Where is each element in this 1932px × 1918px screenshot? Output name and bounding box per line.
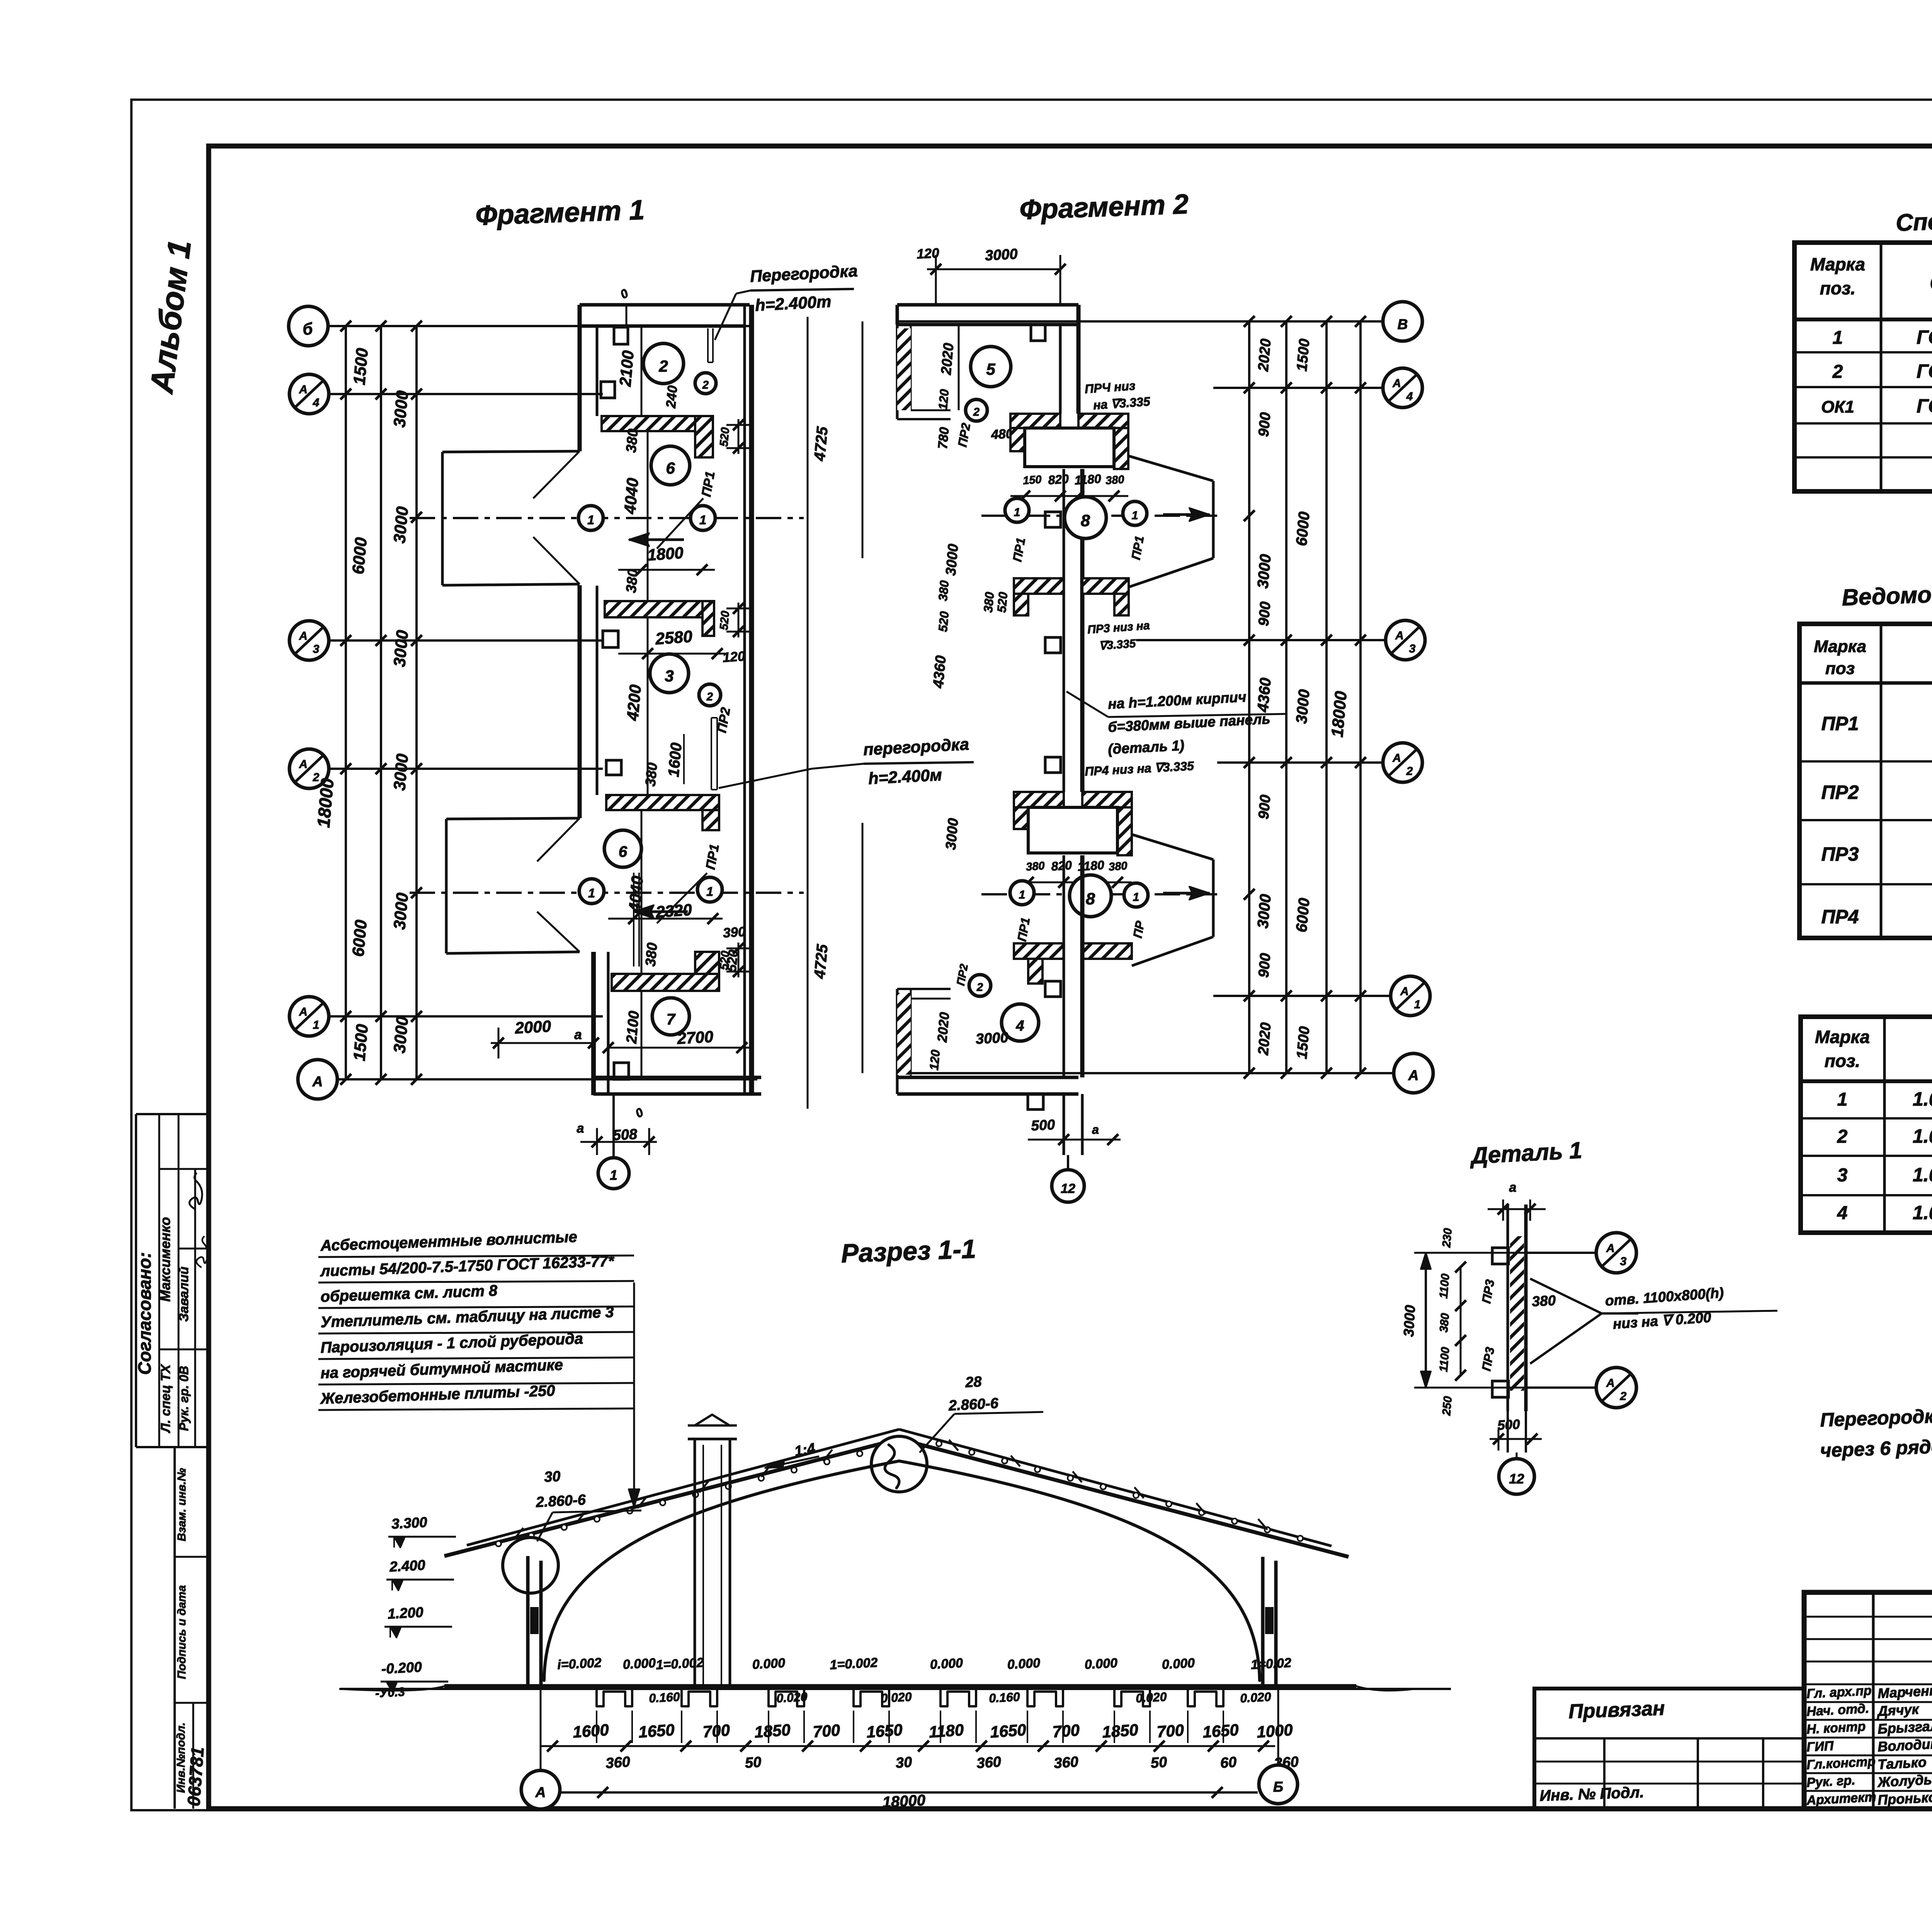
svg-text:780: 780	[935, 426, 952, 450]
svg-text:3000: 3000	[1401, 1305, 1418, 1337]
svg-text:0.000: 0.000	[930, 1656, 963, 1672]
svg-text:150: 150	[1022, 473, 1042, 487]
svg-text:2700: 2700	[676, 1028, 714, 1048]
svg-text:ПР: ПР	[1131, 919, 1147, 939]
svg-text:0.020: 0.020	[776, 1690, 808, 1705]
svg-text:0.000: 0.000	[752, 1656, 786, 1672]
svg-text:0.160: 0.160	[648, 1690, 680, 1705]
svg-text:3000: 3000	[975, 1030, 1009, 1047]
frag2 pilaster bottom	[1045, 981, 1061, 997]
svg-text:Рук. гр. 0В: Рук. гр. 0В	[177, 1366, 191, 1431]
svg-text:1: 1	[1414, 998, 1421, 1011]
svg-text:120: 120	[722, 649, 746, 665]
svg-text:700: 700	[702, 1721, 730, 1741]
svg-text:520: 520	[718, 610, 732, 630]
roof left slope	[444, 1439, 899, 1556]
feed trough channels	[597, 1686, 632, 1706]
title block left horizontal rows	[1804, 1616, 1932, 1618]
dimension ticks fragment1 left	[340, 321, 351, 331]
svg-text:50: 50	[1150, 1754, 1168, 1772]
svg-text:4040: 4040	[625, 875, 646, 913]
svg-text:390: 390	[723, 924, 747, 941]
svg-text:Завалий: Завалий	[177, 1266, 191, 1322]
svg-text:1: 1	[1132, 509, 1138, 522]
svg-text:i=0.002: i=0.002	[557, 1655, 602, 1672]
svg-text:1: 1	[1133, 891, 1139, 904]
svg-text:063781: 063781	[184, 1746, 208, 1807]
frag2 axis circle А/4	[1383, 368, 1422, 408]
svg-text:А: А	[312, 1074, 323, 1089]
table1 verticals	[1880, 243, 1883, 491]
detail leader triangle	[1530, 1279, 1602, 1313]
svg-text:Дячук: Дячук	[1876, 1701, 1920, 1719]
frag2 axis circle А/3	[1386, 620, 1425, 660]
hatched cross wall 2	[605, 601, 714, 617]
detail wall double line	[1507, 1204, 1509, 1411]
svg-text:a: a	[1509, 1180, 1517, 1195]
svg-text:380: 380	[981, 591, 997, 613]
frag2 trapezoid opening lower	[1132, 834, 1213, 860]
svg-text:a: a	[574, 1027, 582, 1042]
svg-text:6: 6	[619, 843, 628, 860]
axis lines fragment 1	[328, 325, 750, 327]
svg-text:1: 1	[587, 513, 594, 527]
svg-text:30: 30	[895, 1754, 913, 1772]
pilaster rect bottom + window	[614, 1063, 629, 1079]
svg-text:Талько: Талько	[1877, 1754, 1927, 1772]
svg-text:Марченко: Марченко	[1877, 1682, 1932, 1701]
section axis circle А	[540, 1686, 542, 1770]
svg-text:1=0.002: 1=0.002	[830, 1655, 878, 1672]
frag2 central wall mid segment	[1063, 469, 1065, 792]
frag2 bottom circle 12	[1067, 1155, 1069, 1171]
table4 verticals	[1883, 1017, 1886, 1233]
svg-text:4: 4	[1837, 1203, 1848, 1223]
svg-text:380: 380	[936, 580, 952, 602]
table1 frame	[1794, 243, 1932, 491]
pilaster rects mid	[603, 631, 618, 647]
frag2 axis circle А/1	[1391, 976, 1430, 1016]
axis circle 1 lower-left	[579, 879, 604, 904]
svg-text:ПР2: ПР2	[1821, 781, 1859, 803]
door opening trapezoid 2	[446, 818, 580, 819]
table4 frame	[1801, 1017, 1932, 1233]
svg-text:ГОСТ 12506-81: ГОСТ 12506-81	[1917, 395, 1932, 417]
svg-text:900: 900	[1255, 601, 1274, 627]
svg-text:Инв. № Подл.: Инв. № Подл.	[1539, 1784, 1645, 1804]
svg-text:18000: 18000	[882, 1792, 926, 1811]
svg-text:380: 380	[623, 568, 641, 593]
frag2 left offset line	[862, 321, 864, 558]
svg-text:700: 700	[1052, 1721, 1080, 1741]
svg-text:Жолудь: Жолудь	[1876, 1772, 1932, 1790]
svg-text:2020: 2020	[1255, 338, 1274, 372]
svg-text:3.300: 3.300	[391, 1514, 428, 1532]
svg-text:12: 12	[1061, 1181, 1075, 1196]
svg-text:240: 240	[663, 385, 680, 409]
svg-text:2020: 2020	[935, 1011, 952, 1043]
svg-text:360: 360	[605, 1754, 631, 1772]
svg-text:1.200: 1.200	[387, 1604, 424, 1622]
svg-text:1000: 1000	[1256, 1721, 1293, 1741]
frag2 right dimension chain lines	[1248, 321, 1250, 1073]
svg-text:Л. спец ТХ: Л. спец ТХ	[158, 1364, 173, 1434]
svg-text:0.020: 0.020	[880, 1690, 912, 1705]
svg-text:Максименко: Максименко	[157, 1217, 173, 1301]
svg-text:4040: 4040	[621, 477, 642, 515]
svg-text:4360: 4360	[930, 655, 949, 689]
svg-text:ГИП: ГИП	[1806, 1738, 1834, 1755]
hatched cross wall 3	[606, 795, 719, 810]
frag2 doorway below H3 lintel box	[1028, 807, 1117, 853]
svg-text:2.400: 2.400	[389, 1557, 426, 1575]
axis circle 1 upper-right	[690, 506, 715, 530]
partition lower module	[633, 873, 634, 967]
frag2 circle 1 upper-left	[1005, 498, 1029, 522]
left wall lower segments	[578, 585, 582, 818]
svg-text:2.860-6: 2.860-6	[535, 1492, 587, 1511]
frag2 axis circle В	[1383, 302, 1422, 341]
portal frame curve left	[544, 1461, 899, 1680]
svg-text:0.160: 0.160	[988, 1690, 1020, 1705]
svg-text:820: 820	[1051, 858, 1072, 873]
section 1-1 group	[318, 1228, 1451, 1811]
lower stamp cells	[173, 1447, 176, 1809]
right side 520 bracket 3	[726, 948, 750, 950]
svg-text:0.000: 0.000	[1162, 1656, 1195, 1672]
fragment1 right offset line 4725 dim	[807, 317, 809, 1109]
frag2 hatch band H3	[1014, 792, 1064, 807]
svg-text:2: 2	[706, 691, 713, 703]
svg-text:ПР4: ПР4	[1821, 906, 1859, 928]
svg-text:1.038.1-1 вып.1: 1.038.1-1 вып.1	[1913, 1125, 1932, 1147]
svg-text:1600: 1600	[665, 742, 685, 778]
svg-text:6000: 6000	[1293, 897, 1313, 933]
frag2 circle 1 lower-right	[1124, 883, 1148, 907]
svg-text:230: 230	[1440, 1227, 1454, 1248]
svg-text:60: 60	[1220, 1754, 1237, 1772]
svg-text:ПР3: ПР3	[1821, 843, 1859, 865]
left column	[526, 1556, 530, 1686]
roof panel circles left	[496, 1541, 501, 1546]
svg-text:120: 120	[927, 1049, 943, 1071]
svg-text:3000: 3000	[1254, 554, 1274, 589]
svg-text:3000: 3000	[1293, 689, 1313, 724]
table2 frame	[1799, 624, 1932, 938]
pilaster rects on left wall	[614, 327, 628, 344]
svg-text:1=0.002: 1=0.002	[656, 1655, 704, 1672]
title block frame	[1804, 1592, 1932, 1809]
svg-text:Б: Б	[1273, 1779, 1283, 1795]
table2 horizontals	[1799, 681, 1932, 685]
detail axis А/3	[1526, 1252, 1595, 1254]
svg-text:3000: 3000	[390, 1016, 412, 1054]
svg-text:1180: 1180	[1074, 472, 1102, 488]
svg-text:1850: 1850	[754, 1721, 791, 1741]
svg-text:Взам. инв.№: Взам. инв.№	[175, 1468, 188, 1541]
svg-text:А: А	[1392, 752, 1401, 764]
detail axis А/2	[1526, 1386, 1595, 1389]
svg-text:поз.: поз.	[1825, 1051, 1860, 1071]
channel vertical strokes to dim line	[596, 1711, 597, 1743]
svg-text:380: 380	[1105, 473, 1125, 487]
svg-text:3000: 3000	[943, 543, 961, 576]
svg-text:1500: 1500	[350, 347, 372, 386]
floor line	[444, 1684, 1356, 1689]
table1 horizontals	[1794, 318, 1932, 321]
svg-text:2.860-6: 2.860-6	[948, 1395, 999, 1414]
svg-text:А: А	[1395, 629, 1404, 642]
bottom exterior wall	[594, 1076, 761, 1079]
svg-text:380: 380	[642, 942, 660, 967]
frag2 pilaster marks mid wall	[1045, 512, 1061, 527]
svg-text:3000: 3000	[1254, 894, 1274, 929]
svg-text:1100: 1100	[1437, 1273, 1452, 1299]
axis circle 1 upper-left	[578, 506, 603, 530]
svg-text:Фрагмент 2: Фрагмент 2	[1019, 189, 1189, 225]
frag2 room5 left inner line	[958, 324, 960, 410]
svg-text:4725: 4725	[811, 943, 831, 980]
svg-text:4: 4	[1406, 390, 1413, 403]
frag2 axis circle А/2	[1383, 743, 1422, 782]
svg-text:Марка: Марка	[1810, 254, 1865, 274]
svg-text:500: 500	[1031, 1116, 1055, 1133]
left outer wall upper segment	[578, 305, 582, 451]
svg-text:900: 900	[1255, 412, 1274, 438]
svg-text:2100: 2100	[616, 350, 637, 387]
frag2 top exterior wall	[897, 303, 1078, 307]
axis circle 1 lower-right	[697, 877, 722, 902]
frag2 circle 1 upper-right	[1123, 501, 1147, 525]
section axis circle Б	[1277, 1686, 1279, 1770]
svg-text:3000: 3000	[390, 390, 412, 428]
svg-text:А: А	[1400, 985, 1409, 998]
axis circle А/1	[289, 997, 329, 1036]
frag2 hatch band H1	[1010, 414, 1060, 428]
svg-text:360: 360	[1053, 1754, 1079, 1772]
svg-text:ОК1: ОК1	[1821, 398, 1854, 416]
svg-text:ГОСТ 18853-73*: ГОСТ 18853-73*	[1917, 326, 1932, 348]
axis 1 dash-dot line lower	[410, 892, 804, 894]
room number 2 small mid	[699, 684, 721, 706]
frag2 trapezoid opening upper	[1128, 456, 1213, 481]
svg-text:6000: 6000	[349, 919, 371, 958]
svg-text:2: 2	[1406, 765, 1413, 778]
svg-text:-0.200: -0.200	[381, 1659, 422, 1677]
frag2 bottom stub wall below	[1063, 1094, 1065, 1155]
svg-text:380: 380	[1531, 1292, 1556, 1309]
svg-text:360: 360	[976, 1754, 1002, 1772]
svg-text:1650: 1650	[638, 1721, 675, 1741]
partition double line room3	[711, 718, 712, 790]
svg-text:6: 6	[666, 459, 675, 477]
total dim 18000	[561, 1791, 1258, 1794]
fragment 1 plan group	[289, 262, 974, 1189]
frag2 pilaster top	[1031, 324, 1045, 341]
frag2 axis circle А	[1394, 1053, 1433, 1093]
svg-text:1.038.1-1 вып.2: 1.038.1-1 вып.2	[1913, 1202, 1932, 1223]
svg-text:18000: 18000	[313, 777, 338, 828]
frag2 axis lines	[897, 320, 1383, 323]
svg-text:1850: 1850	[1102, 1721, 1139, 1741]
svg-text:2: 2	[1620, 1390, 1627, 1403]
frag2 hatch band H4	[1014, 943, 1064, 959]
frag2 flow arrow lower	[1163, 892, 1209, 895]
detail pilaster squares	[1492, 1248, 1509, 1264]
svg-text:-У0.3: -У0.3	[375, 1685, 405, 1700]
svg-text:520: 520	[995, 591, 1010, 613]
frag2 right dim ticks	[1244, 316, 1255, 327]
frag2 hatch band H2	[1014, 578, 1064, 594]
svg-text:0.000: 0.000	[1084, 1656, 1118, 1672]
svg-text:700: 700	[812, 1721, 840, 1741]
detail 1 group	[1401, 1180, 1777, 1494]
svg-text:8: 8	[1086, 890, 1095, 908]
ridge detail circle 28	[871, 1436, 927, 1492]
svg-text:1: 1	[610, 1168, 617, 1183]
svg-text:2100: 2100	[623, 1010, 642, 1045]
svg-text:1650: 1650	[866, 1721, 903, 1741]
svg-text:1: 1	[706, 885, 713, 899]
svg-text:a: a	[577, 1121, 584, 1136]
svg-text:0.000: 0.000	[622, 1656, 656, 1672]
svg-text:1800: 1800	[647, 544, 684, 564]
svg-text:2020: 2020	[938, 342, 956, 376]
room number 3	[650, 654, 689, 693]
room number 2 small top	[695, 373, 716, 394]
margin signatures	[189, 1174, 202, 1209]
svg-text:520: 520	[936, 611, 952, 633]
dim line 2320	[608, 918, 723, 920]
frag2 left corner wall down	[896, 324, 899, 419]
svg-text:А: А	[1606, 1377, 1615, 1390]
svg-text:А: А	[299, 1006, 308, 1018]
svg-text:А: А	[1606, 1242, 1615, 1255]
left dimension chain lines	[345, 326, 347, 1079]
frag2 central wall upper	[1059, 324, 1062, 414]
frag2 brick note leader	[1066, 691, 1108, 717]
roof right slope	[899, 1439, 1349, 1557]
roof purlin ticks left	[514, 1528, 523, 1539]
svg-text:1: 1	[1019, 888, 1026, 901]
svg-text:1500: 1500	[350, 1023, 372, 1062]
axis circle А/3	[289, 621, 329, 660]
roof purlin ticks right	[949, 1440, 958, 1451]
vent shaft	[694, 1439, 696, 1684]
dim line 2000	[491, 1042, 594, 1044]
svg-text:А: А	[1408, 1067, 1419, 1083]
svg-text:6000: 6000	[1293, 511, 1313, 547]
svg-text:4200: 4200	[623, 684, 645, 722]
svg-text:1: 1	[1833, 328, 1843, 348]
flow arrow upper	[629, 539, 684, 541]
svg-text:900: 900	[1255, 953, 1274, 979]
approval stamp block Согласовано	[136, 1113, 209, 1115]
frag2 central wall lower segment	[1063, 855, 1065, 1077]
vent cap	[688, 1438, 737, 1441]
svg-text:7: 7	[667, 1011, 676, 1028]
right side 520 bracket 2	[726, 608, 750, 610]
partition double line top (ПР2)	[707, 328, 709, 362]
svg-text:4725: 4725	[811, 426, 831, 462]
frag2 small 2 circle lower	[969, 975, 991, 996]
table4 horizontals	[1801, 1079, 1932, 1083]
svg-text:1.038.1-1 вып.12: 1.038.1-1 вып.12	[1913, 1088, 1932, 1110]
svg-text:Обозначение: Обозначение	[1930, 270, 1932, 296]
hatched cross wall 1	[602, 416, 713, 431]
svg-text:1: 1	[588, 886, 595, 900]
svg-text:В: В	[1398, 316, 1408, 332]
axis circle А/2	[289, 749, 329, 788]
leader to partition top	[715, 294, 736, 340]
svg-text:∇3.335: ∇3.335	[1099, 637, 1137, 652]
svg-text:28: 28	[964, 1374, 982, 1391]
svg-text:2020: 2020	[1255, 1022, 1274, 1056]
svg-text:520: 520	[718, 950, 732, 970]
hatched cross wall 4	[612, 974, 719, 991]
svg-text:3: 3	[1837, 1165, 1848, 1186]
svg-text:Марка: Марка	[1814, 637, 1866, 656]
svg-text:2580: 2580	[655, 627, 693, 649]
svg-text:1: 1	[313, 1019, 320, 1031]
svg-text:0.020: 0.020	[1240, 1690, 1271, 1705]
frag2 small 2 circle upper	[966, 399, 987, 421]
leader to partition mid	[719, 769, 811, 788]
svg-text:820: 820	[1048, 472, 1069, 487]
detail left dim 3000	[1425, 1253, 1427, 1388]
svg-text:Фрагмент 1: Фрагмент 1	[475, 194, 645, 231]
door opening trapezoid 1	[442, 451, 580, 452]
svg-text:Пронько: Пронько	[1877, 1789, 1932, 1808]
svg-text:1: 1	[1837, 1089, 1848, 1110]
svg-text:380: 380	[642, 762, 660, 787]
axis circle Б	[289, 306, 328, 346]
svg-text:Володина: Володина	[1877, 1735, 1932, 1755]
svg-text:Подпись и дата: Подпись и дата	[175, 1585, 188, 1679]
portal frame curve right	[899, 1461, 1260, 1680]
privyazan grid	[1534, 1737, 1804, 1740]
frag2 circle 8 lower	[1070, 875, 1111, 917]
frag2 circle 8 upper	[1065, 497, 1106, 539]
detail circle 12	[1516, 1453, 1518, 1458]
svg-text:ГОСТ 6629-88: ГОСТ 6629-88	[1917, 360, 1932, 382]
svg-text:2: 2	[973, 406, 980, 418]
svg-text:Привязан: Привязан	[1568, 1697, 1665, 1723]
svg-text:380: 380	[1437, 1312, 1452, 1333]
svg-text:50: 50	[745, 1754, 762, 1772]
svg-text:1.038.1- 1 вып.1: 1.038.1- 1 вып.1	[1913, 1164, 1932, 1186]
svg-text:А: А	[299, 630, 308, 642]
svg-text:ПР1: ПР1	[1821, 713, 1859, 734]
svg-text:8: 8	[1081, 511, 1090, 530]
svg-text:380: 380	[1026, 860, 1045, 873]
svg-text:12: 12	[1509, 1471, 1524, 1486]
svg-text:700: 700	[1156, 1721, 1184, 1741]
svg-text:380: 380	[1108, 860, 1128, 873]
svg-text:поз: поз	[1825, 659, 1855, 678]
inner working frame (thick)	[209, 146, 1932, 1809]
svg-text:4360: 4360	[1254, 677, 1274, 713]
svg-text:2000: 2000	[514, 1017, 551, 1037]
frag2 room 4 circle	[1002, 1004, 1039, 1041]
svg-text:А: А	[535, 1784, 546, 1800]
svg-text:6000: 6000	[349, 537, 371, 575]
svg-text:1600: 1600	[572, 1721, 609, 1741]
svg-text:1: 1	[699, 513, 706, 527]
svg-text:А: А	[1392, 377, 1401, 390]
fragment 2 plan group	[862, 245, 1433, 1202]
svg-text:30: 30	[544, 1468, 561, 1485]
